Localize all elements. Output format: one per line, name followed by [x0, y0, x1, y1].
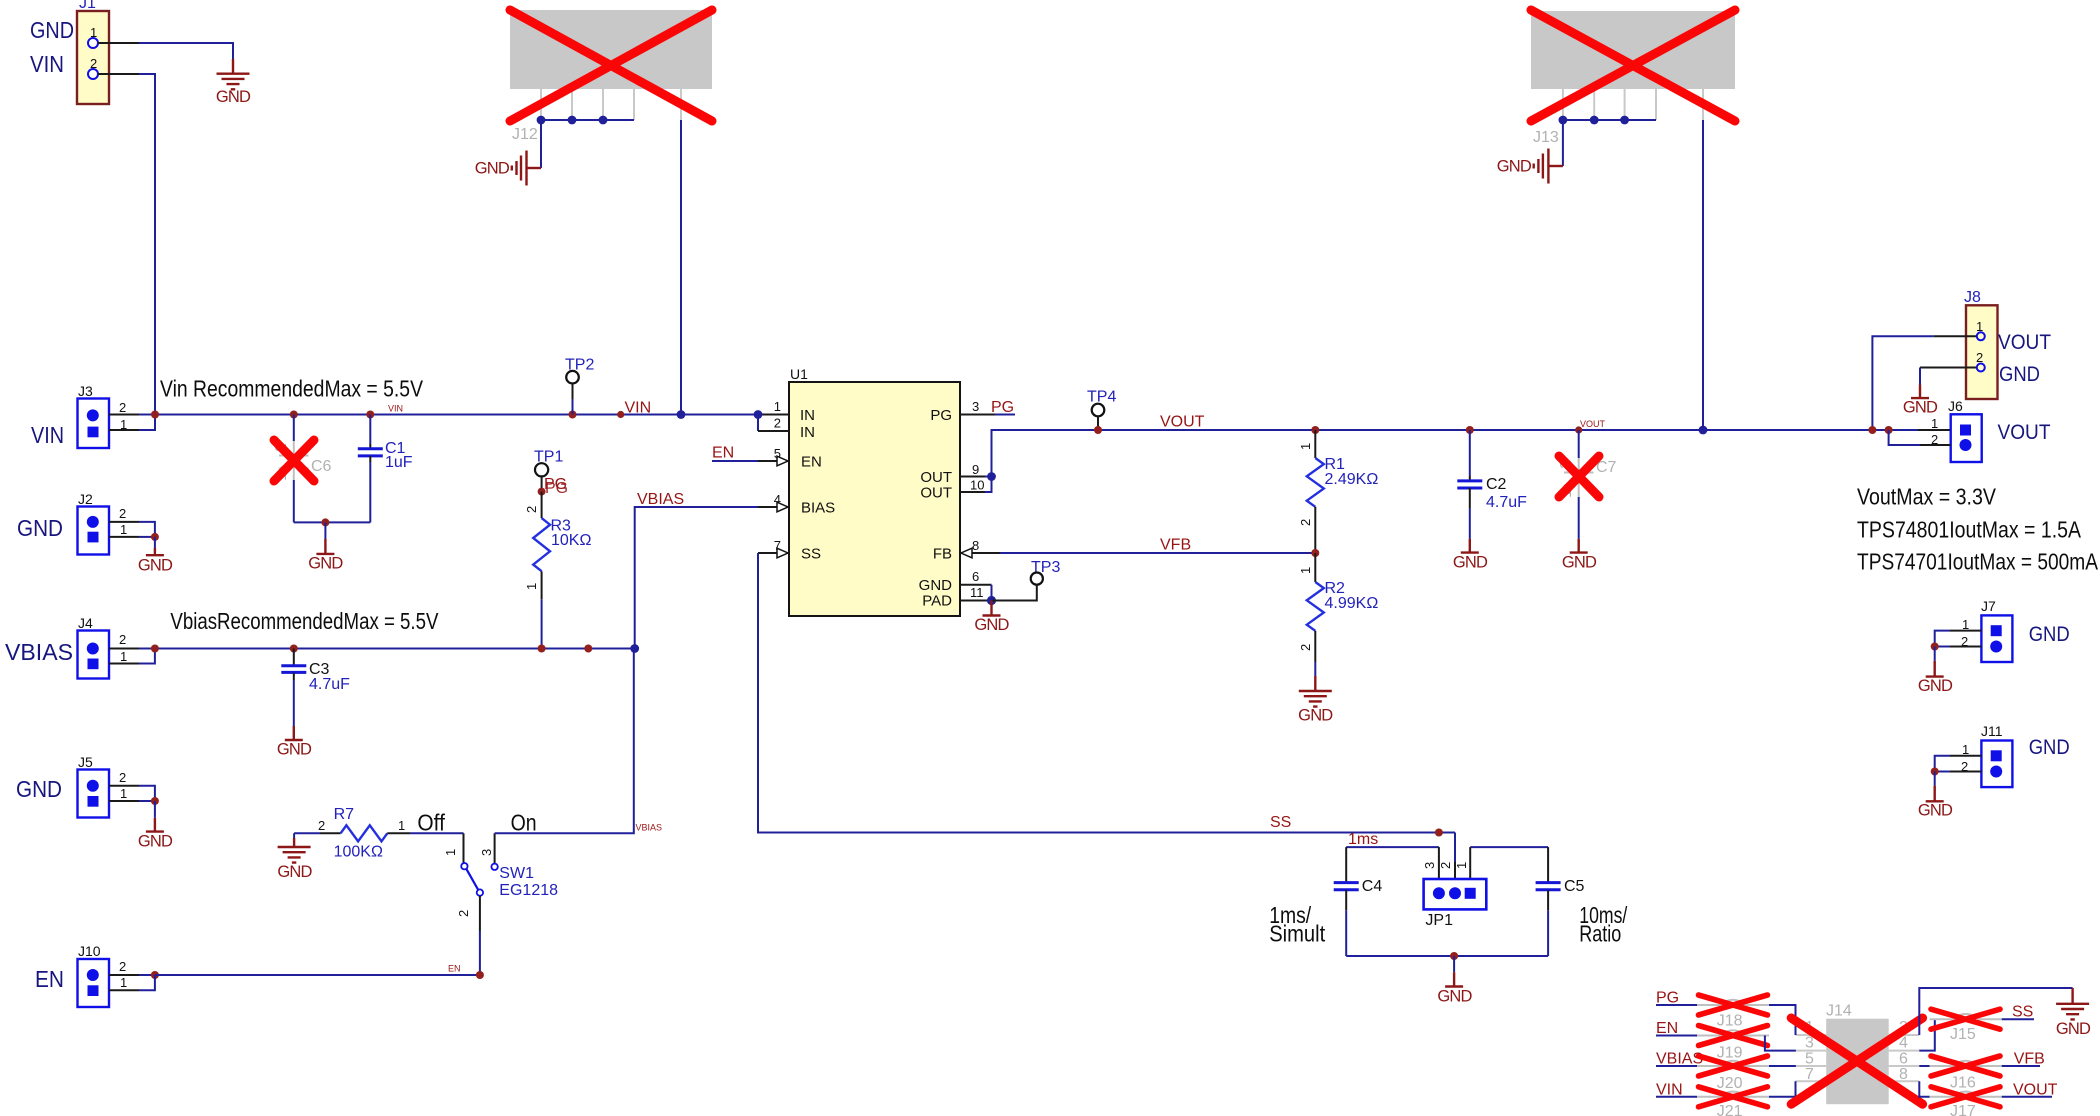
connector J11	[1961, 723, 2012, 787]
svg-text:EN: EN	[35, 966, 64, 992]
svg-text:1: 1	[1454, 862, 1469, 869]
pin 5 U1 EN	[758, 446, 789, 466]
svg-text:GND: GND	[17, 515, 63, 541]
capacitor C6 (DNP)	[273, 415, 332, 523]
red X over J17	[1931, 1087, 2000, 1107]
resistor R1	[1298, 426, 1378, 553]
svg-text:J20: J20	[1717, 1075, 1743, 1092]
wire SW1 On to VBIAS	[495, 649, 662, 834]
svg-text:SS: SS	[801, 546, 821, 563]
svg-text:GND: GND	[1918, 802, 1953, 820]
ground GND under C3	[277, 726, 312, 759]
svg-text:1: 1	[774, 399, 781, 414]
svg-text:6: 6	[972, 569, 979, 584]
wire J6 pin2	[1889, 430, 1951, 445]
svg-text:1: 1	[120, 975, 127, 990]
jumper J21 (DNP)	[1697, 1092, 1769, 1116]
wire EN line	[155, 964, 484, 980]
ground GND at J13 (sideways)	[1497, 149, 1563, 184]
svg-text:GND: GND	[974, 616, 1009, 634]
svg-text:PG: PG	[1656, 990, 1679, 1007]
svg-text:IN: IN	[800, 407, 815, 424]
svg-text:PG: PG	[991, 399, 1014, 416]
svg-text:BIAS: BIAS	[801, 500, 835, 517]
svg-text:J11: J11	[1981, 723, 2003, 739]
ground GND at J1	[216, 59, 251, 106]
wire J11 pin1	[1935, 756, 1982, 772]
capacitor C5	[1536, 847, 1585, 956]
svg-text:GND: GND	[30, 17, 74, 43]
svg-text:J17: J17	[1950, 1103, 1976, 1116]
svg-text:TPS74801IoutMax = 1.5A: TPS74801IoutMax = 1.5A	[1857, 517, 2082, 543]
ground GND at J5	[138, 801, 173, 851]
ground GND at J8	[1903, 385, 1938, 417]
svg-text:VIN: VIN	[1656, 1081, 1683, 1098]
capacitor C3	[281, 649, 350, 727]
svg-text:2: 2	[456, 910, 471, 917]
connector J8	[1964, 289, 1998, 399]
svg-text:4.99KΩ: 4.99KΩ	[1325, 595, 1379, 612]
svg-text:J19: J19	[1717, 1045, 1743, 1062]
svg-text:J3: J3	[78, 383, 93, 399]
svg-text:J13: J13	[1533, 129, 1559, 146]
wire J8 pin2 to GND	[1920, 368, 1976, 385]
svg-text:6: 6	[1899, 1050, 1908, 1067]
svg-text:EN: EN	[712, 445, 734, 462]
wire J3 pin2	[109, 414, 155, 416]
svg-text:4.7uF: 4.7uF	[309, 676, 350, 693]
pin 8 U1 FB	[960, 538, 1000, 558]
capacitor C4	[1334, 847, 1383, 956]
svg-text:SS: SS	[2012, 1004, 2033, 1021]
annotation Vin Recommended Max	[160, 376, 424, 402]
wire J19 to J14 pin3	[1765, 1036, 1796, 1051]
svg-text:2: 2	[119, 770, 126, 785]
jumper J17 (DNP)	[1930, 1092, 2002, 1116]
node PG label at TP1	[538, 476, 569, 497]
node VFB net label	[2002, 1051, 2045, 1068]
svg-text:8: 8	[972, 538, 979, 553]
svg-text:1uF: 1uF	[385, 454, 413, 471]
svg-text:2: 2	[1298, 644, 1313, 651]
jumper J20 (DNP)	[1697, 1061, 1769, 1092]
red X over J14	[1791, 1018, 1922, 1104]
testpoint TP4	[1087, 389, 1116, 435]
wire J14 pin8 to J17	[1919, 1081, 1929, 1097]
svg-text:J21: J21	[1717, 1103, 1743, 1116]
capacitor C2	[1457, 426, 1527, 539]
svg-text:1: 1	[120, 649, 127, 664]
jumper J15 (DNP)	[1930, 1014, 2002, 1043]
svg-text:GND: GND	[1437, 988, 1472, 1006]
svg-text:1: 1	[1931, 416, 1938, 431]
node VOUT net label bottom right	[2002, 1081, 2058, 1098]
svg-text:4.7uF: 4.7uF	[1486, 494, 1527, 511]
testpoint TP1	[534, 449, 563, 492]
node EN net label	[1656, 1020, 1697, 1037]
svg-text:VBIAS: VBIAS	[637, 491, 684, 508]
svg-text:On: On	[511, 810, 537, 836]
node PG net label	[1656, 990, 1697, 1007]
resistor R7	[294, 806, 463, 861]
svg-text:J7: J7	[1981, 598, 1996, 614]
svg-text:PG: PG	[545, 480, 568, 497]
svg-text:J4: J4	[78, 615, 93, 631]
wire J2 pin2	[109, 522, 155, 537]
connector J14 (DNP block)	[1796, 1003, 1920, 1105]
svg-text:GND: GND	[1903, 399, 1938, 417]
svg-text:VOUT: VOUT	[1160, 414, 1205, 431]
ground GND at J2	[138, 537, 173, 575]
wire J12 pins 1-4 tie	[537, 116, 634, 168]
connector J12 (DNP block)	[510, 10, 712, 143]
svg-text:1: 1	[398, 818, 405, 833]
svg-text:VFB: VFB	[2014, 1051, 2045, 1068]
svg-text:TPS74701IoutMax = 500mA: TPS74701IoutMax = 500mA	[1857, 549, 2099, 575]
resistor R3	[524, 492, 591, 649]
svg-text:11: 11	[970, 585, 984, 600]
testpoint TP2	[565, 357, 594, 415]
svg-text:PG: PG	[930, 407, 952, 424]
wire J18 to J14 pin1	[1769, 1005, 1796, 1035]
svg-text:OUT: OUT	[920, 469, 952, 486]
wire J1 pin1 to GND	[98, 43, 233, 59]
wire J3 pin1	[109, 415, 155, 431]
wire J14 pin2 to GND	[1919, 988, 2072, 1035]
svg-text:2: 2	[1438, 862, 1453, 869]
svg-text:VBIAS: VBIAS	[5, 639, 73, 665]
connector J7	[1961, 598, 2012, 662]
junction J12 drop	[677, 410, 686, 419]
wire J14 pin4 to J15	[1919, 1019, 1935, 1050]
svg-text:J18: J18	[1717, 1013, 1743, 1030]
svg-text:3: 3	[1422, 862, 1437, 869]
wire J5 pin2	[109, 786, 155, 801]
pin 1 U1	[754, 399, 789, 419]
svg-text:GND: GND	[475, 160, 510, 178]
svg-text:C5: C5	[1564, 878, 1585, 895]
svg-text:2: 2	[119, 506, 126, 521]
svg-text:GND: GND	[2029, 623, 2070, 646]
pin 7 U1 SS	[758, 538, 789, 558]
svg-text:VbiasRecommendedMax = 5.5V: VbiasRecommendedMax = 5.5V	[170, 608, 439, 634]
svg-text:2: 2	[774, 416, 781, 431]
wire JP1 pin3 drop	[1438, 847, 1440, 888]
svg-text:GND: GND	[216, 88, 251, 106]
ground GND at J7	[1918, 647, 1953, 696]
svg-text:2: 2	[1298, 519, 1313, 526]
svg-text:GND: GND	[1298, 707, 1333, 725]
connector J2	[78, 491, 128, 555]
wire JP1 pin2 drop	[1454, 833, 1456, 889]
ground GND at U1 PAD	[974, 601, 1009, 635]
svg-text:VFB: VFB	[1160, 537, 1191, 554]
svg-text:JP1: JP1	[1425, 912, 1453, 929]
op-amp U1 (LDO regulator)	[789, 366, 960, 616]
pin 6 U1 GND	[960, 569, 992, 601]
ground GND under JP1	[1437, 972, 1472, 1005]
svg-text:SS: SS	[1270, 814, 1291, 831]
svg-text:GND: GND	[2056, 1020, 2091, 1038]
connector J13 (DNP block)	[1531, 11, 1735, 146]
ground GND under C1/C6	[308, 539, 343, 573]
red X over C7	[1559, 456, 1599, 497]
svg-text:GND: GND	[138, 833, 173, 851]
wire J4 pin1	[109, 649, 155, 664]
svg-text:J12: J12	[512, 126, 538, 143]
svg-text:GND: GND	[919, 577, 953, 594]
wire C4-C5 bottom rail	[1346, 952, 1548, 972]
svg-text:VOUT: VOUT	[2013, 1081, 2058, 1098]
junction SS at JP1	[1435, 829, 1443, 837]
svg-text:1: 1	[443, 849, 458, 856]
svg-text:U1: U1	[790, 366, 808, 382]
svg-text:Off: Off	[417, 810, 445, 836]
wire VBIAS line	[151, 644, 639, 653]
svg-text:GND: GND	[308, 555, 343, 573]
svg-text:VIN: VIN	[30, 51, 64, 77]
wire J7 pin1	[1935, 631, 1982, 647]
capacitor C7 (DNP)	[1558, 419, 1617, 539]
svg-text:J2: J2	[78, 491, 93, 507]
svg-text:VoutMax = 3.3V: VoutMax = 3.3V	[1857, 484, 1997, 510]
svg-text:VBIAS: VBIAS	[1656, 1051, 1703, 1068]
pin 2 U1	[758, 415, 789, 432]
wire J8 pin1 to VOUT	[1868, 336, 1976, 434]
wire VOUT line	[992, 430, 1951, 477]
svg-text:TP4: TP4	[1087, 389, 1116, 406]
svg-text:VOUT: VOUT	[1580, 419, 1606, 429]
svg-text:5: 5	[1805, 1050, 1814, 1067]
svg-text:VBIAS: VBIAS	[636, 823, 663, 833]
node VIN net label	[617, 400, 651, 419]
svg-text:3: 3	[479, 849, 494, 856]
pin 11 U1 PAD	[960, 585, 996, 605]
svg-text:2: 2	[524, 506, 539, 513]
wire VIN line	[151, 411, 758, 419]
wire VBIAS to BIAS pin	[635, 491, 758, 649]
connector J1	[77, 0, 109, 104]
svg-text:GND: GND	[277, 741, 312, 759]
svg-text:VIN: VIN	[31, 422, 64, 448]
svg-text:EN: EN	[448, 964, 461, 974]
svg-text:VOUT: VOUT	[1998, 331, 2051, 354]
wire J7 pin2	[1931, 643, 1982, 651]
svg-text:EN: EN	[1656, 1020, 1678, 1037]
pin 4 U1 BIAS	[758, 492, 789, 512]
junction VFB/R1/R2	[1311, 549, 1319, 557]
wire J10 pin2	[109, 971, 159, 979]
wire J13 pin5 drop to VOUT line	[1702, 120, 1704, 430]
ground GND at R7	[277, 833, 312, 881]
testpoint TP3	[992, 559, 1061, 601]
svg-text:2: 2	[119, 959, 126, 974]
svg-text:VIN: VIN	[625, 400, 652, 417]
svg-text:C2: C2	[1486, 476, 1507, 493]
svg-text:Vin RecommendedMax = 5.5V: Vin RecommendedMax = 5.5V	[160, 376, 424, 402]
switch SW1	[443, 833, 558, 975]
connector J6	[1931, 398, 1982, 462]
ground GND under C7	[1562, 539, 1597, 572]
wire J21 to J14 pin7	[1769, 1081, 1796, 1097]
wire J4 pin2	[109, 648, 155, 650]
svg-text:EG1218: EG1218	[499, 882, 558, 899]
node 1ms net label	[1346, 831, 1439, 848]
annotation Vbias Recommended Max	[170, 608, 439, 634]
svg-text:GND: GND	[16, 776, 62, 802]
wire JP1 pin1 drop	[1470, 847, 1548, 888]
svg-text:Simult: Simult	[1269, 921, 1326, 947]
jumper J19 (DNP)	[1697, 1030, 1769, 1061]
node SS net label	[2002, 1004, 2034, 1021]
jumper J16 (DNP)	[1919, 1061, 2001, 1092]
svg-text:1ms: 1ms	[1348, 831, 1378, 848]
svg-text:C6: C6	[311, 458, 332, 475]
wire VFB net	[1000, 537, 1315, 554]
ground GND bottom right	[2056, 988, 2091, 1038]
node EN net label at U1	[712, 445, 758, 462]
svg-text:3: 3	[972, 399, 979, 414]
svg-text:1: 1	[120, 786, 127, 801]
junction VOUT at J6	[1885, 426, 1893, 434]
wire J12 pin5 drop to VIN line	[680, 120, 682, 415]
svg-text:C4: C4	[1362, 878, 1383, 895]
svg-text:J8: J8	[1964, 289, 1981, 306]
svg-text:GND: GND	[277, 863, 312, 881]
svg-text:1: 1	[1298, 567, 1313, 574]
node VIN net label	[1656, 1081, 1697, 1098]
wire J2 pin1	[109, 533, 159, 541]
connector J4	[78, 615, 128, 679]
red X over J16	[1931, 1056, 2000, 1076]
svg-text:J10: J10	[78, 943, 101, 959]
svg-text:2: 2	[119, 400, 126, 415]
red X over J12	[510, 10, 712, 121]
svg-text:J16: J16	[1950, 1075, 1976, 1092]
red X over J13	[1531, 10, 1735, 121]
svg-text:PAD: PAD	[922, 593, 952, 610]
svg-text:IN: IN	[800, 424, 815, 441]
red X over J20	[1699, 1056, 1768, 1076]
pin 3 U1 PG	[960, 399, 1015, 416]
svg-text:GND: GND	[1453, 554, 1488, 572]
svg-text:1: 1	[1962, 742, 1969, 757]
node VBIAS net label	[1656, 1051, 1703, 1068]
red X over J21	[1699, 1087, 1768, 1107]
svg-text:Ratio: Ratio	[1579, 921, 1621, 947]
svg-text:9: 9	[972, 462, 979, 477]
svg-text:EN: EN	[801, 454, 822, 471]
svg-text:VOUT: VOUT	[1998, 421, 2051, 444]
svg-text:SW1: SW1	[499, 865, 534, 882]
svg-text:GND: GND	[138, 557, 173, 575]
svg-text:GND: GND	[1999, 363, 2040, 386]
svg-text:1: 1	[1298, 443, 1313, 450]
svg-text:R7: R7	[334, 806, 355, 823]
ground GND under R2	[1298, 676, 1333, 725]
wire J1 pin2 to VIN line	[98, 74, 155, 415]
red X over J15	[1931, 1009, 2000, 1029]
jumper J18 (DNP)	[1697, 1000, 1769, 1030]
svg-text:J15: J15	[1950, 1026, 1976, 1043]
svg-text:FB: FB	[933, 546, 952, 563]
annotation 10ms/Ratio	[1579, 902, 1627, 947]
ground GND at J12 (sideways)	[475, 151, 541, 186]
wire J20 to J14 pin5	[1769, 1065, 1796, 1067]
pin 10 U1 OUT	[960, 477, 992, 493]
wire C6-C1 join	[294, 518, 371, 539]
pin 9 U1 OUT	[960, 462, 996, 481]
capacitor C1	[358, 415, 413, 523]
junction J13 drop on VOUT	[1699, 426, 1708, 435]
connector J10	[78, 943, 128, 1007]
red X over C6	[274, 440, 314, 481]
jumper JP1	[1422, 862, 1486, 929]
svg-text:GND: GND	[1497, 158, 1532, 176]
svg-text:J5: J5	[78, 754, 93, 770]
svg-text:2.49KΩ: 2.49KΩ	[1325, 471, 1379, 488]
svg-text:2: 2	[318, 818, 325, 833]
wire J5 pin1	[109, 797, 159, 805]
red X over J19	[1699, 1026, 1768, 1046]
resistor R2	[1298, 553, 1378, 676]
connector J5	[78, 754, 128, 818]
svg-text:10: 10	[970, 478, 984, 493]
annotation Vout Max block	[1857, 484, 2099, 575]
svg-text:OUT: OUT	[920, 485, 952, 502]
svg-text:1: 1	[120, 522, 127, 537]
ground GND at J11	[1918, 772, 1953, 820]
ground GND under C2	[1453, 539, 1488, 572]
wire J10 pin1	[109, 975, 155, 990]
svg-text:100KΩ: 100KΩ	[334, 844, 383, 861]
connector J3	[78, 383, 128, 448]
svg-text:J14: J14	[1826, 1003, 1852, 1020]
svg-text:GND: GND	[1918, 677, 1953, 695]
svg-text:J6: J6	[1948, 398, 1963, 414]
svg-text:1: 1	[524, 583, 539, 590]
wire SS net from pin7	[758, 553, 1455, 833]
wire J13 pins 1-4 tie	[1559, 116, 1657, 166]
svg-text:2: 2	[119, 632, 126, 647]
svg-text:GND: GND	[2029, 736, 2070, 759]
svg-text:VIN: VIN	[388, 404, 403, 414]
svg-text:10KΩ: 10KΩ	[551, 532, 591, 549]
annotation 1ms/Simult	[1269, 902, 1326, 947]
wire J11 pin2	[1931, 768, 1982, 776]
red X over J18	[1699, 995, 1768, 1015]
svg-text:GND: GND	[1562, 554, 1597, 572]
